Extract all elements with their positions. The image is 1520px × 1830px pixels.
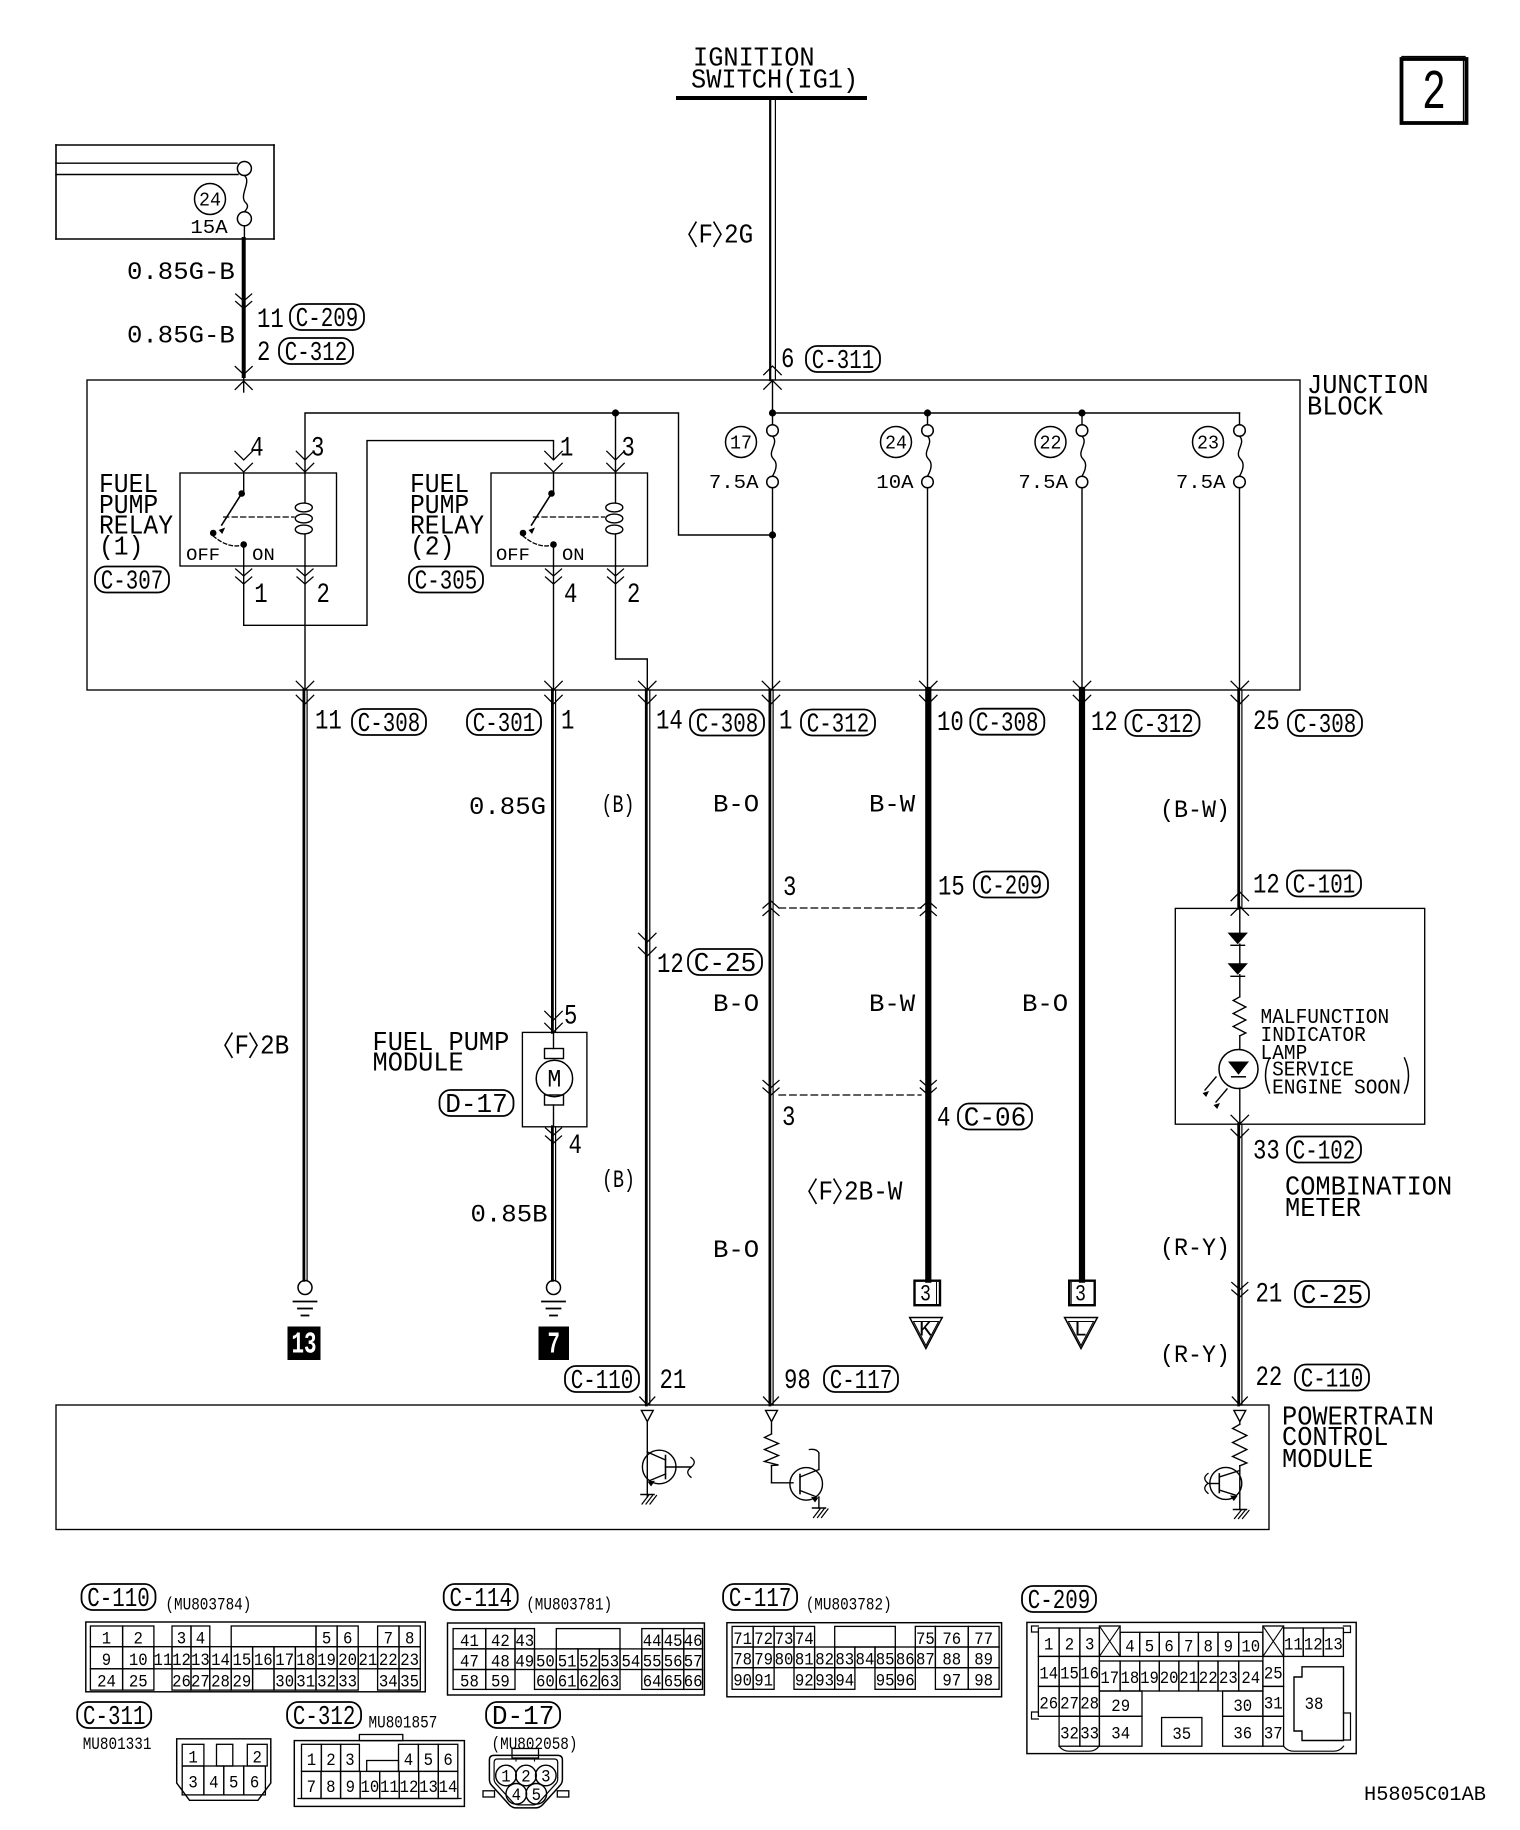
svg-text:D-17: D-17 [492, 1702, 555, 1732]
svg-text:9: 9 [1224, 1637, 1233, 1657]
svg-text:21: 21 [1256, 1280, 1283, 1311]
svg-text:5: 5 [229, 1774, 238, 1794]
svg-text:2: 2 [257, 338, 270, 369]
fuse 22 7.5A [1076, 425, 1088, 437]
svg-text:2: 2 [253, 1748, 262, 1768]
svg-text:61: 61 [558, 1673, 577, 1693]
svg-text:C-305: C-305 [415, 567, 478, 597]
svg-text:23: 23 [1219, 1669, 1238, 1689]
svg-text:22: 22 [1040, 433, 1062, 455]
malfunction indicator lamp LED [1219, 1050, 1258, 1089]
svg-text:3: 3 [782, 1103, 795, 1134]
svg-text:B-O: B-O [713, 1236, 759, 1265]
ground reference box 13 [288, 1327, 320, 1360]
svg-text:B-O: B-O [713, 990, 759, 1019]
svg-text:B-W: B-W [869, 990, 915, 1019]
svg-text:C-312: C-312 [807, 710, 870, 740]
svg-text:C-06: C-06 [964, 1104, 1027, 1134]
svg-text:0.85B: 0.85B [471, 1201, 548, 1230]
svg-text:27: 27 [1060, 1694, 1079, 1714]
C-209 bottom tabs [1059, 1746, 1099, 1751]
svg-text:2B-W: 2B-W [844, 1178, 903, 1209]
wire relay2 pin4 down [553, 566, 555, 690]
svg-text:33: 33 [1253, 1137, 1280, 1168]
svg-text:C-110: C-110 [1301, 1365, 1364, 1395]
svg-text:7: 7 [307, 1778, 316, 1798]
svg-text:F: F [819, 1178, 834, 1209]
svg-text:18: 18 [1121, 1669, 1140, 1689]
connector C-209 table [1022, 1586, 1096, 1612]
svg-text:14: 14 [439, 1778, 458, 1798]
svg-text:1: 1 [501, 1768, 510, 1788]
svg-text:35: 35 [1172, 1725, 1191, 1745]
svg-text:F: F [699, 221, 714, 252]
junction block outline [87, 380, 1300, 690]
wire (B-W) 25 C-308 to combination meter [1237, 690, 1240, 908]
connector crossing 33 C-102 [1231, 1115, 1248, 1124]
ground for wire 7 [547, 1281, 561, 1295]
svg-text:OFF: OFF [496, 546, 530, 566]
svg-text:29: 29 [1111, 1697, 1130, 1717]
svg-text:12: 12 [1304, 1635, 1323, 1655]
svg-text:6: 6 [443, 1751, 452, 1771]
svg-text:34: 34 [379, 1673, 398, 1693]
connector crossing 21 C-25 [1232, 1283, 1248, 1290]
svg-text:K: K [919, 1318, 933, 1343]
svg-text:22: 22 [1199, 1669, 1218, 1689]
combination meter box [1175, 908, 1424, 1124]
svg-text:26: 26 [1039, 1694, 1058, 1714]
svg-text:4: 4 [1125, 1637, 1134, 1657]
wire fuse 17 down [772, 488, 774, 690]
svg-text:M: M [547, 1066, 561, 1095]
svg-text:12: 12 [1253, 871, 1280, 902]
powertrain control module box [56, 1405, 1269, 1530]
svg-text:2: 2 [1422, 61, 1446, 125]
ground reference box 7 [539, 1327, 569, 1360]
fuse 23 7.5A [1234, 425, 1246, 437]
svg-text:25: 25 [129, 1673, 148, 1693]
svg-text:14: 14 [1039, 1665, 1058, 1685]
svg-text:3: 3 [920, 1282, 931, 1308]
svg-text:30: 30 [1233, 1697, 1252, 1717]
svg-text:C-312: C-312 [1131, 710, 1194, 740]
svg-text:29: 29 [233, 1673, 252, 1693]
wire relay2 coil pin3 to bus [615, 413, 617, 473]
svg-text:4: 4 [569, 1131, 582, 1162]
svg-text:21: 21 [359, 1651, 378, 1671]
wire B-W 10 C-308 to data link terminal K [925, 690, 931, 1280]
fuel pump relay (1) C-307 [180, 473, 337, 566]
connector crossing 11 C-209 [236, 294, 252, 301]
svg-text:13: 13 [292, 1328, 317, 1363]
wire label (F)2B-W [809, 1179, 816, 1203]
svg-text:2: 2 [627, 580, 640, 611]
connector C-117 table [723, 1584, 797, 1610]
connector C-110 table [82, 1584, 156, 1610]
svg-text:1: 1 [779, 707, 792, 738]
wire 11 C-308 (F)2B to ground 13 [302, 690, 305, 1280]
fuse 24 10A [922, 425, 934, 437]
crossing 3 / dashed to 4 C-06 [763, 1081, 779, 1088]
svg-text:C-308: C-308 [1294, 710, 1357, 740]
svg-text:2: 2 [326, 1751, 335, 1771]
wire relay1 pin1 to relay2 pin1 [244, 441, 554, 626]
svg-text:MU801857: MU801857 [369, 1713, 438, 1733]
svg-text:6: 6 [781, 345, 794, 376]
svg-text:14: 14 [211, 1651, 230, 1671]
svg-text:C-114: C-114 [449, 1584, 512, 1614]
svg-text:(MU802058): (MU802058) [492, 1735, 578, 1755]
svg-text:19: 19 [1140, 1669, 1159, 1689]
svg-text:22: 22 [1256, 1363, 1283, 1394]
svg-text:B-W: B-W [869, 791, 915, 820]
fuel pump relay (2) C-305 [491, 473, 648, 566]
svg-text:C-312: C-312 [293, 1702, 356, 1732]
ground for wire 13 [298, 1281, 312, 1295]
svg-text:22: 22 [379, 1651, 398, 1671]
svg-text:11: 11 [1284, 1635, 1303, 1655]
svg-text:C-25: C-25 [694, 949, 757, 979]
svg-text:3: 3 [783, 873, 796, 904]
svg-text:BLOCK: BLOCK [1307, 393, 1384, 424]
svg-text:27: 27 [191, 1673, 210, 1693]
svg-text:C-308: C-308 [976, 709, 1039, 739]
svg-text:62: 62 [579, 1673, 598, 1693]
fuse 17 7.5A [767, 425, 779, 437]
svg-text:54: 54 [622, 1652, 641, 1672]
fuel pump motor symbol [553, 1032, 555, 1048]
svg-text:7.5A: 7.5A [1176, 472, 1226, 494]
svg-text:31: 31 [296, 1673, 315, 1693]
svg-text:OFF: OFF [186, 546, 220, 566]
svg-text:95: 95 [876, 1672, 895, 1692]
C-209 X cell 1 [1099, 1626, 1120, 1656]
svg-text:9: 9 [102, 1651, 111, 1671]
svg-text:1: 1 [561, 707, 574, 738]
svg-text:2: 2 [521, 1768, 530, 1788]
svg-text:80: 80 [775, 1650, 794, 1670]
svg-text:13: 13 [191, 1651, 210, 1671]
svg-text:7.5A: 7.5A [709, 472, 759, 494]
svg-text:15: 15 [1060, 1665, 1079, 1685]
svg-text:(B): (B) [602, 1166, 635, 1195]
svg-text:15A: 15A [190, 217, 228, 239]
svg-text:4: 4 [250, 434, 263, 465]
svg-text:2: 2 [317, 580, 330, 611]
svg-text:98: 98 [974, 1672, 993, 1692]
connector C-311 [77, 1702, 151, 1728]
terminal 3 box L [1069, 1281, 1095, 1306]
svg-text:3: 3 [541, 1768, 550, 1788]
svg-text:(MU803781): (MU803781) [526, 1596, 612, 1616]
svg-text:F: F [235, 1032, 250, 1063]
svg-text:37: 37 [1264, 1724, 1283, 1744]
wire B-O 12 C-312 to data link terminal L [1079, 690, 1085, 1280]
wire R-Y meter to PCM 22 [1237, 1124, 1240, 1405]
svg-text:12: 12 [172, 1651, 191, 1671]
svg-text:C-101: C-101 [1293, 871, 1356, 901]
svg-text:C-209: C-209 [980, 872, 1043, 902]
svg-text:28: 28 [211, 1673, 230, 1693]
svg-text:0.85G: 0.85G [469, 793, 546, 822]
svg-text:10: 10 [1241, 1637, 1260, 1657]
svg-text:C-110: C-110 [571, 1366, 634, 1396]
meter internal wire [1239, 908, 1241, 932]
svg-text:11: 11 [315, 707, 342, 738]
svg-text:19: 19 [317, 1651, 336, 1671]
svg-text:36: 36 [1233, 1724, 1252, 1744]
junction node dots [612, 409, 619, 416]
wire relay2 pin2 down jog [616, 566, 648, 690]
wire B-O 1 C-312 to PCM 98 [769, 690, 772, 1405]
svg-text:21: 21 [660, 1366, 687, 1397]
svg-text:7.5A: 7.5A [1018, 472, 1068, 494]
wire ignition IG1 to junction block [769, 100, 771, 380]
crossing 15 C-209 [920, 901, 936, 908]
svg-text:C-308: C-308 [696, 710, 759, 740]
svg-text:24: 24 [199, 190, 221, 212]
fusible link 24 15A symbol [237, 162, 251, 176]
PCM ground Q3 [1234, 1509, 1247, 1511]
svg-text:32: 32 [1060, 1724, 1079, 1744]
svg-text:C-102: C-102 [1293, 1137, 1356, 1167]
svg-text:C-25: C-25 [1301, 1281, 1364, 1311]
svg-text:14: 14 [656, 707, 683, 738]
svg-text:H5805C01AB: H5805C01AB [1364, 1784, 1486, 1807]
svg-text:25: 25 [1264, 1665, 1283, 1685]
svg-text:(2): (2) [410, 532, 454, 563]
svg-text:C-117: C-117 [830, 1366, 893, 1396]
svg-text:3: 3 [622, 434, 635, 465]
svg-text:3: 3 [345, 1751, 354, 1771]
wire fuse 22 down [1081, 488, 1083, 690]
svg-text:21: 21 [1179, 1669, 1198, 1689]
wire label (F)2G [689, 222, 696, 246]
connector C-312 [287, 1702, 361, 1728]
svg-text:11: 11 [380, 1778, 399, 1798]
svg-text:32: 32 [317, 1673, 336, 1693]
svg-text:(MU803784): (MU803784) [165, 1595, 251, 1615]
svg-text:84: 84 [856, 1650, 875, 1670]
svg-text:2G: 2G [724, 221, 753, 252]
svg-text:5: 5 [564, 1002, 577, 1033]
svg-text:33: 33 [1080, 1724, 1099, 1744]
svg-text:30: 30 [275, 1673, 294, 1693]
svg-text:91: 91 [754, 1672, 773, 1692]
junction block exit crossings [296, 681, 313, 690]
page number 2 box [1402, 56, 1465, 58]
connector crossing 12 C-25 [639, 933, 656, 942]
svg-text:4: 4 [404, 1751, 413, 1771]
svg-text:31: 31 [1264, 1694, 1283, 1714]
svg-text:1: 1 [254, 580, 267, 611]
svg-text:10A: 10A [876, 472, 914, 494]
svg-text:SWITCH(IG1): SWITCH(IG1) [691, 66, 858, 97]
svg-text:87: 87 [916, 1650, 935, 1670]
svg-text:7: 7 [547, 1328, 560, 1363]
svg-text:MU801331: MU801331 [83, 1735, 152, 1755]
svg-text:25: 25 [1253, 707, 1280, 738]
svg-text:20: 20 [338, 1651, 357, 1671]
svg-text:16: 16 [254, 1651, 273, 1671]
connector C-114 table [444, 1584, 518, 1610]
svg-text:33: 33 [338, 1673, 357, 1693]
svg-text:10: 10 [129, 1651, 148, 1671]
svg-text:17: 17 [275, 1651, 294, 1671]
svg-text:24: 24 [97, 1673, 116, 1693]
svg-text:59: 59 [491, 1673, 510, 1693]
svg-text:92: 92 [795, 1672, 814, 1692]
C-209 X cell 2 [1263, 1626, 1284, 1656]
svg-text:64: 64 [643, 1673, 662, 1693]
wire fuse 24 down [927, 488, 929, 690]
svg-text:16: 16 [1080, 1665, 1099, 1685]
svg-text:35: 35 [400, 1673, 419, 1693]
svg-text:(R-Y): (R-Y) [1160, 1234, 1230, 1263]
svg-text:MODULE: MODULE [373, 1049, 464, 1080]
svg-text:10: 10 [360, 1778, 379, 1798]
crossing 4 C-06 [920, 1081, 936, 1088]
bus wire ignition to fuses [772, 380, 774, 425]
svg-text:(B-W): (B-W) [1160, 796, 1230, 825]
svg-text:5: 5 [532, 1786, 541, 1806]
svg-text:20: 20 [1160, 1669, 1179, 1689]
PCM resistor and transistor Q3 MIL drive [1234, 1410, 1246, 1421]
svg-text:5: 5 [1145, 1637, 1154, 1657]
svg-text:C-117: C-117 [729, 1584, 792, 1614]
svg-text:7: 7 [1184, 1637, 1193, 1657]
svg-text:24: 24 [1241, 1669, 1260, 1689]
svg-text:15: 15 [233, 1651, 252, 1671]
svg-text:10: 10 [937, 708, 964, 739]
meter junction arrow 1 [1228, 933, 1248, 945]
svg-text:MODULE: MODULE [1282, 1445, 1373, 1476]
svg-text:26: 26 [172, 1673, 191, 1693]
meter junction arrow 2 [1228, 963, 1248, 975]
svg-text:13: 13 [1324, 1635, 1343, 1655]
svg-text:3: 3 [1085, 1635, 1094, 1655]
wire label (F)2B [225, 1033, 232, 1057]
svg-text:ON: ON [562, 546, 585, 566]
svg-text:24: 24 [885, 433, 907, 455]
PCM ground Q2 [813, 1507, 826, 1509]
svg-text:13: 13 [419, 1778, 438, 1798]
svg-text:8: 8 [1204, 1637, 1213, 1657]
svg-text:11: 11 [154, 1651, 173, 1671]
label C-110 21 into PCM [565, 1366, 639, 1392]
svg-text:23: 23 [400, 1651, 419, 1671]
resistor in combination meter [1233, 997, 1246, 1036]
svg-text:3: 3 [188, 1774, 197, 1794]
svg-text:C-301: C-301 [473, 709, 536, 739]
svg-text:0.85G-B: 0.85G-B [127, 258, 235, 287]
C-209 keyed cell 38 [1294, 1667, 1344, 1741]
wire 0.85G relay2 to fuel pump module [551, 690, 554, 1032]
svg-text:90: 90 [733, 1672, 752, 1692]
svg-text:63: 63 [600, 1673, 619, 1693]
svg-text:12: 12 [657, 950, 684, 981]
svg-text:9: 9 [346, 1778, 355, 1798]
svg-text:96: 96 [896, 1672, 915, 1692]
svg-text:12: 12 [1091, 708, 1118, 739]
svg-text:8: 8 [326, 1778, 335, 1798]
svg-text:1: 1 [560, 434, 573, 465]
svg-text:0.85G-B: 0.85G-B [127, 322, 235, 351]
svg-text:B-O: B-O [713, 791, 759, 820]
svg-text:ENGINE SOON: ENGINE SOON [1272, 1077, 1401, 1101]
svg-text:1: 1 [307, 1751, 316, 1771]
wire 0.85G-B from fusible link to junction block [243, 226, 245, 239]
svg-text:6: 6 [250, 1774, 259, 1794]
triangle terminal K [910, 1318, 943, 1349]
svg-text:B-O: B-O [1022, 990, 1068, 1019]
bus wire from fuse 17 to relay coils [305, 413, 773, 535]
fuse box (partial) with fusible link 24 [56, 144, 274, 146]
svg-text:METER: METER [1285, 1194, 1361, 1225]
svg-text:34: 34 [1111, 1724, 1130, 1744]
svg-text:C-209: C-209 [296, 304, 359, 334]
wire (B) 14 C-308 to PCM 21 [645, 690, 648, 1405]
svg-text:15: 15 [938, 873, 965, 904]
svg-text:11: 11 [257, 305, 284, 336]
svg-text:1: 1 [1044, 1635, 1053, 1655]
svg-text:97: 97 [942, 1672, 961, 1692]
svg-text:(B): (B) [602, 791, 635, 820]
svg-text:4: 4 [512, 1786, 521, 1806]
wire relay1 pin2 down [304, 566, 306, 690]
svg-text:5: 5 [424, 1751, 433, 1771]
svg-text:4: 4 [564, 580, 577, 611]
svg-text:C-308: C-308 [358, 709, 421, 739]
svg-text:1: 1 [188, 1748, 197, 1768]
PCM transistor Q1 for fuel pump relay drive [641, 1410, 653, 1421]
svg-text:23: 23 [1197, 433, 1219, 455]
svg-text:C-312: C-312 [285, 338, 348, 368]
svg-text:C-209: C-209 [1028, 1586, 1091, 1616]
wire 0.85B module to ground 7 [551, 1127, 554, 1281]
svg-text:28: 28 [1080, 1694, 1099, 1714]
PCM resistor and transistor Q2 fuel pump relay 2 drive [766, 1410, 778, 1421]
svg-text:4: 4 [209, 1774, 218, 1794]
svg-text:C-311: C-311 [83, 1702, 146, 1732]
svg-text:4: 4 [937, 1104, 950, 1135]
svg-text:(R-Y): (R-Y) [1160, 1341, 1230, 1370]
svg-text:2B: 2B [260, 1032, 289, 1063]
svg-text:98: 98 [784, 1366, 811, 1397]
svg-text:D-17: D-17 [445, 1090, 508, 1120]
svg-text:C-311: C-311 [812, 346, 875, 376]
svg-text:18: 18 [296, 1651, 315, 1671]
PCM ground Q1 [641, 1494, 654, 1496]
svg-text:60: 60 [536, 1673, 555, 1693]
svg-text:C-110: C-110 [87, 1584, 150, 1614]
svg-text:66: 66 [684, 1673, 703, 1693]
svg-text:49: 49 [515, 1652, 534, 1672]
svg-text:6: 6 [1164, 1637, 1173, 1657]
svg-text:3: 3 [311, 434, 324, 465]
triangle terminal L [1065, 1318, 1098, 1349]
terminal 3 box K [915, 1281, 941, 1306]
svg-text:94: 94 [835, 1672, 854, 1692]
svg-text:3: 3 [1075, 1282, 1086, 1308]
svg-text:12: 12 [400, 1778, 419, 1798]
svg-text:(1): (1) [99, 532, 143, 563]
svg-text:L: L [1074, 1318, 1087, 1343]
LED light arrows [1205, 1077, 1216, 1090]
svg-text:ON: ON [252, 546, 275, 566]
connector D-17 [486, 1702, 560, 1728]
